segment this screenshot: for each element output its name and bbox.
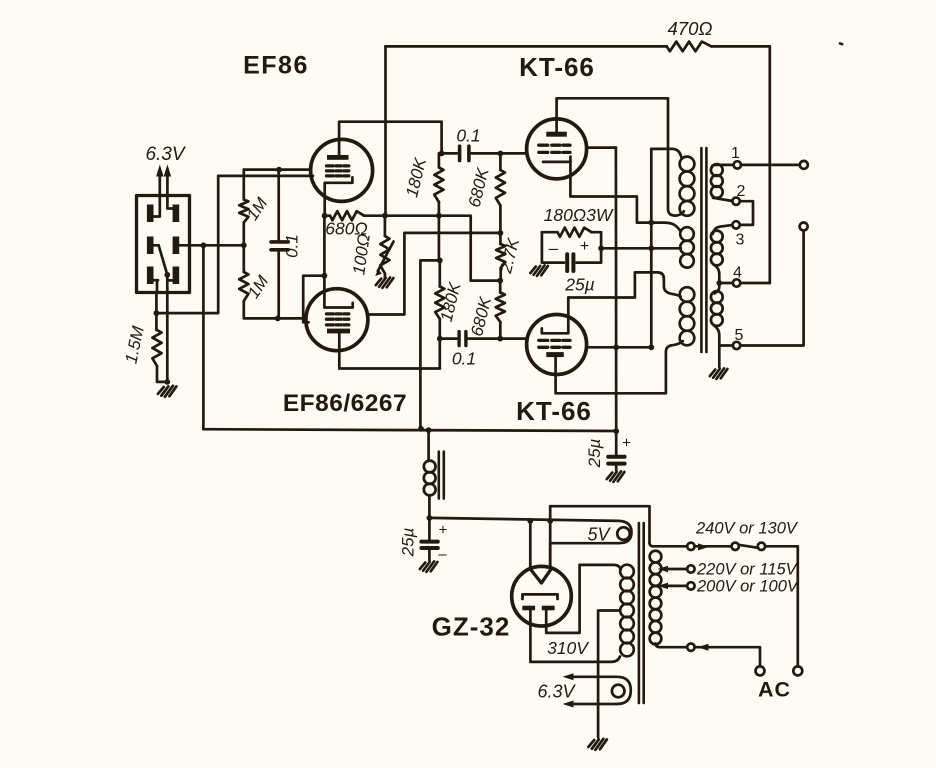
wire V4 grid bbox=[500, 337, 527, 340]
wire bias to CT bbox=[601, 247, 681, 250]
svg-text:2: 2 bbox=[737, 183, 746, 200]
tube V2 EF86/6267 (lower) bbox=[306, 289, 368, 351]
capacitor C 25u main bbox=[428, 518, 431, 540]
svg-text:–: – bbox=[438, 546, 447, 563]
input socket SK1 bbox=[137, 196, 190, 293]
svg-text:EF86/6267: EF86/6267 bbox=[283, 390, 407, 417]
wire mains left bbox=[695, 647, 761, 666]
resistor 180K upper bbox=[434, 168, 443, 203]
wire screen supply rail bbox=[203, 429, 616, 431]
wire V3 grid bbox=[500, 152, 527, 155]
resistor 470ohm bbox=[667, 42, 712, 52]
resistor 2.7K bbox=[496, 244, 505, 268]
svg-text:KT-66: KT-66 bbox=[519, 52, 595, 82]
choke L1 bbox=[427, 430, 430, 461]
svg-text:25µ: 25µ bbox=[399, 527, 418, 557]
svg-text:3: 3 bbox=[736, 232, 745, 249]
resistor R 180K upper bbox=[438, 153, 441, 167]
svg-text:6.3V: 6.3V bbox=[145, 144, 186, 165]
capacitor C 0.1 coupling upper bbox=[442, 152, 501, 155]
transformer T1 primary winding lower bbox=[680, 287, 695, 302]
primary tap 220V bbox=[666, 568, 687, 571]
svg-text:25µ: 25µ bbox=[585, 438, 604, 468]
transformer T1 primary winding upper bbox=[651, 149, 681, 158]
svg-text:5: 5 bbox=[735, 327, 744, 344]
wire V2 screen stub bbox=[303, 276, 324, 323]
wire V5 anode left to 310V bottom bbox=[530, 610, 620, 662]
svg-text:1: 1 bbox=[731, 145, 740, 162]
wire GZ32 filament leads bbox=[529, 521, 532, 570]
wire V4 screen bbox=[586, 346, 651, 349]
wire 180K lower top link bbox=[420, 260, 439, 428]
svg-text:KT-66: KT-66 bbox=[516, 396, 592, 426]
ground bias block bbox=[530, 265, 548, 275]
V4 grid dashes bbox=[539, 340, 570, 347]
svg-text:–: – bbox=[549, 239, 559, 258]
capacitor C 25u screen bbox=[615, 431, 618, 455]
resistor 680K upper bbox=[496, 170, 505, 206]
wire left HT riser bbox=[202, 245, 205, 429]
wire primary over-top bbox=[550, 506, 649, 543]
wire input mid bbox=[190, 244, 244, 247]
capacitor C 0.1 input bbox=[277, 170, 280, 319]
tube V3 KT-66 (upper) bbox=[527, 119, 587, 179]
pot wiper arrow bbox=[378, 242, 394, 272]
wire UL tap line bbox=[650, 149, 653, 347]
wire tap5 to output return bbox=[740, 231, 803, 346]
resistor R 1M upper bbox=[242, 170, 245, 246]
V3 grid dashes bbox=[539, 145, 570, 152]
transformer T2 core bbox=[639, 523, 644, 703]
switch blade bbox=[159, 245, 168, 274]
wire B+ from choke to 5V winding bbox=[429, 518, 631, 569]
V4 cathode bbox=[542, 298, 569, 334]
svg-text:0.1: 0.1 bbox=[452, 349, 476, 369]
wire V5 anode right to 310V top bbox=[546, 565, 579, 633]
resistor 1M lower bbox=[239, 272, 248, 301]
V1 cathode bbox=[325, 177, 353, 215]
svg-text:+: + bbox=[580, 238, 589, 255]
tube V1 EF86 (upper) bbox=[311, 139, 373, 201]
wire V4 cathode run bbox=[568, 272, 680, 297]
svg-text:200V or 100V: 200V or 100V bbox=[696, 578, 800, 596]
ground below 1.5M bbox=[158, 386, 176, 397]
wire screens bus bbox=[615, 148, 618, 432]
svg-text:+: + bbox=[439, 522, 448, 539]
transformer T2 primary winding bbox=[650, 543, 688, 546]
wire B+ feed row (y216) bbox=[385, 216, 500, 281]
scan speck bbox=[838, 42, 844, 46]
V3 cathode bbox=[543, 157, 570, 162]
resistor 680ohm bbox=[330, 211, 364, 220]
terminal circles 1-5 bbox=[734, 161, 741, 168]
wire output hot bbox=[741, 164, 800, 167]
svg-text:0.1: 0.1 bbox=[283, 234, 302, 258]
transformer T1 primary winding middle bbox=[680, 227, 694, 241]
wire socket drop left bbox=[155, 293, 158, 331]
resistor R 680ohm bbox=[325, 214, 385, 217]
socket pin tabs and internal wires bbox=[154, 196, 173, 217]
primary tap 200V bbox=[666, 585, 687, 588]
5V winding loop bbox=[617, 527, 630, 540]
wire tap4 to HT rail bbox=[740, 282, 770, 285]
resistor 1.5M bbox=[152, 330, 161, 366]
tube V4 KT-66 (lower) bbox=[527, 315, 587, 375]
resistor R 1M lower bbox=[244, 245, 306, 318]
V5 anode bars bbox=[522, 606, 535, 611]
wire HT drop from rail bbox=[384, 46, 387, 215]
transformer T1 secondary windings bbox=[711, 164, 723, 176]
tube V5 GZ-32 bbox=[512, 566, 572, 626]
wire V4 anode to OPT bbox=[556, 341, 683, 393]
V1 grid dashes bbox=[327, 166, 349, 176]
resistor 100ohm bbox=[380, 236, 389, 274]
wire V3 cathode run bbox=[570, 162, 680, 231]
wire V3 anode to OPT bbox=[557, 98, 684, 215]
transformer T1 core bbox=[701, 148, 706, 352]
svg-text:6.3V: 6.3V bbox=[537, 682, 576, 702]
voltage selector switch bbox=[695, 545, 732, 548]
wire screen top (to V1) bbox=[218, 175, 313, 178]
svg-text:AC: AC bbox=[758, 678, 791, 702]
wire 310V top lead bbox=[580, 565, 621, 570]
transformer T2 HT winding bbox=[620, 565, 634, 579]
svg-text:0.1: 0.1 bbox=[456, 126, 480, 146]
svg-text:5V: 5V bbox=[587, 525, 611, 545]
resistor 180ohm bbox=[558, 228, 592, 237]
wire cross-couple left bbox=[156, 176, 218, 313]
resistor R 180ohm 3W bbox=[542, 231, 601, 234]
svg-text:240V or 130V: 240V or 130V bbox=[695, 520, 799, 538]
svg-text:180Ω3W: 180Ω3W bbox=[544, 205, 614, 225]
svg-text:EF86: EF86 bbox=[243, 52, 309, 80]
svg-text:310V: 310V bbox=[547, 638, 590, 658]
V2 grid dashes bbox=[327, 314, 349, 325]
resistor 180K lower bbox=[435, 287, 444, 320]
wire mains right bbox=[765, 546, 798, 666]
V5 filament bbox=[530, 569, 551, 583]
strap terminals 2-3 bbox=[740, 201, 753, 225]
wire feedback row (y233) to V2 screen bbox=[369, 233, 500, 315]
svg-text:470Ω: 470Ω bbox=[668, 18, 713, 39]
secondary tap leads bbox=[712, 165, 734, 167]
transformer T2 heater winding 6.3V bbox=[574, 677, 631, 704]
wire 310V centre tap to ground bbox=[598, 611, 620, 738]
wire grid top (to V1 grid) bbox=[244, 168, 311, 171]
wire V3 screen bbox=[586, 146, 616, 149]
heater arrows bbox=[160, 173, 168, 196]
svg-text:+: + bbox=[622, 435, 631, 452]
V5 bar bbox=[523, 594, 558, 599]
wire V1 anode out bbox=[339, 122, 442, 155]
resistor 680K lower bbox=[496, 293, 505, 323]
capacitor C 25u bias bbox=[542, 232, 601, 262]
wire HT top rail bbox=[386, 46, 770, 283]
capacitor C 0.1 coupling lower bbox=[440, 337, 501, 340]
svg-text:25µ: 25µ bbox=[564, 275, 595, 295]
wire V2 anode out bbox=[339, 333, 440, 368]
V2 cathode bbox=[324, 216, 352, 308]
resistor 1M upper bbox=[239, 200, 248, 223]
svg-text:GZ-32: GZ-32 bbox=[432, 612, 511, 642]
resistor R 100ohm hum pot bbox=[384, 216, 387, 236]
svg-text:4: 4 bbox=[733, 265, 742, 282]
resistor R 2.7K bbox=[498, 230, 504, 236]
svg-text:220V or 115V: 220V or 115V bbox=[696, 561, 799, 579]
